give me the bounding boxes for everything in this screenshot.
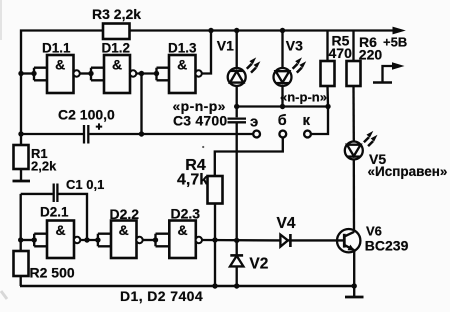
gate D1.3 [169, 55, 202, 93]
capacitor C3 [228, 107, 247, 241]
wire V1 anode [236, 31, 238, 69]
node R1 C2 junction [18, 131, 23, 136]
terminal b [279, 131, 286, 138]
gate D1.1 [47, 55, 80, 93]
gate D2.1 [47, 221, 80, 259]
svg-text:V6: V6 [366, 224, 382, 239]
wire D1.3 output feedback to top rail [202, 31, 211, 74]
node V2 top junction [234, 238, 239, 243]
wire R4 bottom to output row [214, 204, 216, 287]
resistor R1 [14, 145, 29, 180]
svg-text:C3 4700: C3 4700 [173, 113, 227, 129]
gate D2.3 [169, 221, 202, 259]
node V1 bottom [234, 104, 239, 109]
wire emitter down [353, 250, 355, 286]
power +5V arrow [393, 27, 406, 35]
wire V4 to base [290, 239, 343, 241]
diode V4 [280, 234, 290, 247]
wire top rail left segment [21, 31, 103, 146]
svg-text:D1.2: D1.2 [102, 41, 131, 56]
wire R5 top [326, 31, 328, 62]
node feedback junction [208, 28, 213, 33]
wire top rail right segment [130, 29, 395, 31]
svg-text:D1.1: D1.1 [42, 41, 71, 56]
resistor R4 [208, 176, 223, 204]
node V3 top junction [280, 28, 285, 33]
svg-text:V4: V4 [277, 215, 296, 232]
capacitor C1 [21, 184, 87, 241]
wire emitter rail right [89, 133, 253, 135]
svg-text:D2.2: D2.2 [110, 206, 140, 222]
node R5 bottom junction [325, 104, 330, 109]
svg-text:R2 500: R2 500 [30, 265, 75, 281]
svg-text:б: б [278, 113, 287, 129]
wire emitter rail left [21, 133, 83, 135]
svg-text:470: 470 [329, 45, 353, 61]
svg-text:«n-p-n»: «n-p-n» [280, 90, 327, 105]
gate D2.2 [111, 221, 143, 259]
svg-text:D2.1: D2.1 [40, 205, 69, 220]
wire D2.3 output row [202, 239, 280, 242]
wire V3 anode [281, 31, 283, 69]
svg-text:C2 100,0: C2 100,0 [58, 107, 115, 123]
svg-text:BC239: BC239 [365, 238, 409, 254]
svg-text:2,2k: 2,2k [31, 159, 57, 174]
resistor R6 [347, 61, 361, 86]
svg-text:&: & [55, 57, 65, 73]
node D2.3 input bar [153, 234, 170, 247]
node V1 top junction [234, 28, 239, 33]
node junction to C2 drop [139, 71, 144, 76]
wire D2 left rail [20, 194, 22, 251]
wire D1.1 out to D1.2 in [80, 72, 91, 74]
svg-text:V1: V1 [217, 38, 234, 54]
svg-text:&: & [177, 57, 187, 73]
svg-text:э: э [250, 114, 258, 131]
LED V3 [274, 68, 292, 86]
ground common top right [373, 62, 405, 82]
wire LED common rail [237, 105, 328, 107]
svg-text:V2: V2 [249, 256, 268, 273]
svg-text:&: & [177, 222, 187, 238]
LED V5 [345, 142, 363, 160]
wire V1 cathode [236, 86, 238, 107]
resistor R5 [321, 61, 335, 86]
wire D1.1 input feed [21, 72, 34, 74]
LED V1 light arrows [247, 57, 261, 72]
svg-text:C1 0,1: C1 0,1 [66, 177, 104, 192]
node emitter rail junction [139, 131, 144, 136]
node D1.3 input bar [154, 68, 169, 81]
node R4 bottom junction [212, 237, 217, 242]
wire drop from D1.2-D1.3 to emitter rail [140, 74, 142, 135]
node bottom rail emitter [352, 283, 357, 288]
svg-text:«Исправен»: «Исправен» [368, 164, 448, 179]
ground R1 [13, 180, 31, 183]
wire base drop [215, 137, 283, 176]
resistor R3 [103, 24, 130, 40]
wire D2.1 out to D2.2 in [80, 239, 98, 241]
ground bottom [345, 286, 364, 297]
node bottom rail V2 [234, 283, 239, 288]
svg-text:V3: V3 [286, 38, 303, 54]
svg-text:&: & [112, 57, 122, 73]
LED V5 light arrows [364, 131, 378, 146]
terminal k [304, 131, 311, 138]
wire bottom rail [20, 285, 354, 288]
capacitor C2 [84, 123, 102, 143]
svg-text:&: & [119, 222, 129, 238]
node D1.1 input junction [18, 71, 23, 76]
svg-text:D1.3: D1.3 [168, 41, 197, 56]
terminal e [253, 131, 260, 138]
resistor R2 [14, 251, 29, 286]
svg-text:4,7k: 4,7k [177, 172, 208, 189]
svg-text:&: & [55, 222, 65, 238]
node D2.2 input bar [95, 234, 111, 247]
wire D1.2 out to D1.3 in [136, 72, 156, 74]
node bottom rail R4 [212, 283, 217, 288]
svg-text:220: 220 [359, 47, 383, 63]
diode V2 [230, 240, 243, 286]
wire V3 cathode [281, 86, 283, 107]
svg-text:к: к [303, 112, 311, 129]
wire collector link to R5 [311, 107, 328, 135]
node D1.1 input bar [31, 68, 47, 81]
wire D2.1 input feed [21, 239, 35, 241]
node C1 junction [84, 237, 89, 242]
node D1.2 input bar [88, 68, 104, 81]
wire R6 to V5 [352, 86, 355, 142]
node V3 bottom [280, 104, 285, 109]
wire R5 bottom [326, 86, 329, 107]
wire R6 top [352, 31, 354, 62]
LED V3 light arrows [293, 57, 307, 72]
svg-text:R3 2,2k: R3 2,2k [92, 6, 141, 22]
svg-text:D1, D2 7404: D1, D2 7404 [120, 288, 203, 304]
svg-text:+5В: +5В [383, 35, 407, 50]
wire D2.2 out to D2.3 in [143, 239, 156, 241]
transistor V6 [337, 229, 360, 252]
svg-text:D2.3: D2.3 [171, 206, 201, 222]
wire V5 to collector [353, 160, 356, 232]
LED V1 [228, 68, 246, 86]
node D2.1 input bar [32, 234, 48, 247]
gate D1.2 [104, 55, 136, 93]
node D2 left rail junction [18, 237, 23, 242]
